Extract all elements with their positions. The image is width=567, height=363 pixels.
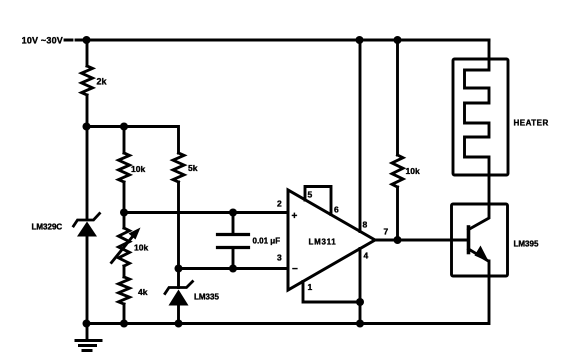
- potentiometer arrowhead: [129, 228, 141, 240]
- svg-text:2k: 2k: [97, 77, 108, 87]
- svg-text:10k: 10k: [131, 164, 145, 174]
- svg-text:HEATER: HEATER: [514, 119, 549, 128]
- wire: [86, 40, 89, 66]
- svg-text:LM395: LM395: [514, 240, 539, 249]
- wire: [123, 266, 126, 277]
- ground: [86, 324, 89, 340]
- svg-text:0.01 μF: 0.01 μF: [253, 237, 281, 246]
- svg-text:5: 5: [308, 190, 313, 200]
- wire: [86, 237, 89, 324]
- svg-text:−: −: [292, 264, 298, 275]
- wire pin2 net: [124, 211, 288, 214]
- svg-text:4: 4: [364, 251, 369, 261]
- wire node A: [87, 127, 179, 154]
- potentiometer arrow: [112, 234, 136, 263]
- zener reference D1 LM329C: [74, 214, 100, 227]
- wire: [86, 95, 89, 219]
- wire emitter to ground rail: [87, 261, 489, 324]
- svg-text:1: 1: [308, 282, 313, 292]
- wire pin3 net: [179, 267, 289, 270]
- svg-text:+: +: [292, 211, 298, 222]
- wire: [396, 187, 399, 240]
- transistor Q1 LM395 box: [452, 204, 508, 276]
- wire top V+ rail: [86, 39, 489, 42]
- capacitor 0.01uF: [232, 213, 235, 269]
- node V+ supply lead: [65, 39, 86, 42]
- svg-text:7: 7: [384, 227, 389, 237]
- svg-text:10k: 10k: [406, 166, 420, 176]
- wire output pin7: [375, 239, 469, 242]
- resistor 10k pull-up: [392, 155, 403, 187]
- junction dots: [83, 36, 91, 44]
- wire pin8 V+: [359, 40, 362, 232]
- wire pin1: [303, 282, 360, 303]
- wire: [177, 306, 180, 324]
- svg-text:LM329C: LM329C: [32, 223, 63, 232]
- sensor D2 LM335 triangle: [169, 290, 189, 306]
- resistor 4k: [119, 277, 130, 304]
- svg-text:8: 8: [363, 220, 368, 230]
- svg-text:LM335: LM335: [194, 293, 219, 302]
- svg-text:10V ~30V: 10V ~30V: [22, 36, 63, 46]
- wire: [396, 40, 399, 155]
- transistor base bar: [467, 227, 471, 253]
- svg-text:5k: 5k: [188, 163, 198, 173]
- wire: [177, 182, 180, 288]
- potentiometer 10k: [119, 228, 130, 266]
- resistor 5k: [173, 153, 184, 182]
- sensor D2 LM335 bar: [165, 282, 193, 294]
- heater box: [453, 59, 508, 175]
- svg-text:3: 3: [277, 253, 282, 263]
- zener D1 triangle: [77, 222, 97, 237]
- wire pin4: [359, 249, 362, 324]
- wire balance loop pin5-pin6: [305, 187, 331, 215]
- wire: [123, 182, 126, 228]
- svg-text:LM311: LM311: [309, 238, 337, 247]
- svg-text:4k: 4k: [138, 287, 148, 297]
- resistor 10k: [119, 153, 130, 182]
- transistor emitter: [469, 249, 488, 261]
- svg-text:2: 2: [277, 199, 282, 209]
- op-amp comparator U1 LM311: [288, 190, 375, 290]
- resistor R 2k: [82, 66, 93, 95]
- wire: [123, 304, 126, 324]
- svg-text:6: 6: [334, 205, 339, 215]
- wire: [123, 127, 126, 154]
- svg-text:10k: 10k: [134, 243, 148, 253]
- wire heater feed + heater element meander: [465, 40, 490, 230]
- transistor emitter arrowhead: [475, 246, 490, 263]
